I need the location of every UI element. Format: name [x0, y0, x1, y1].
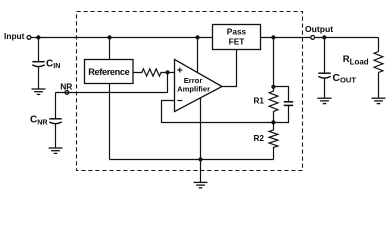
wire CNR drop — [55, 93, 57, 119]
wire COUT drop — [324, 38, 326, 74]
wire RLoad ground stem — [378, 73, 380, 99]
wire RLoad drop — [378, 38, 380, 52]
ground under RLoad — [372, 98, 386, 103]
op-amp error amplifier — [175, 59, 223, 111]
resistor internal R (reference filter) — [133, 69, 175, 76]
plus input marker — [177, 68, 182, 73]
svg-text:R1: R1 — [254, 97, 265, 106]
wire ground stem — [200, 160, 202, 183]
wire CIN drop — [38, 38, 40, 62]
wire reference supply — [109, 38, 111, 60]
wire reference ground drop — [109, 84, 111, 160]
ground center — [194, 182, 208, 187]
IC boundary dashed box — [77, 12, 303, 171]
svg-text:Pass: Pass — [227, 27, 247, 37]
block Pass FET — [213, 25, 261, 50]
wire CIN to ground — [38, 67, 40, 89]
wire COUT ground stem — [324, 78, 326, 98]
junction rail/amp supply — [195, 35, 199, 39]
capacitor feedforward plates — [284, 102, 293, 106]
wire CNR to ground — [55, 124, 57, 148]
wire output rail — [261, 37, 379, 39]
svg-text:Output: Output — [305, 24, 333, 34]
junction rail/COUT — [322, 35, 326, 39]
wire error amp ground — [200, 98, 202, 160]
wire error amp supply — [197, 38, 199, 73]
junction rail/divider — [271, 35, 275, 39]
junction R1 bottom / feedback node — [271, 120, 275, 124]
output terminal — [311, 36, 315, 40]
svg-text:FET: FET — [229, 36, 245, 46]
capacitor CNR — [49, 119, 61, 124]
ground under CIN — [32, 89, 46, 94]
svg-text:Input: Input — [4, 31, 25, 41]
capacitor CIN — [32, 62, 44, 67]
wire divider drop — [273, 38, 275, 92]
svg-text:CIN: CIN — [46, 58, 60, 70]
resistor R2 — [269, 123, 278, 160]
junction rail/reference — [107, 35, 111, 39]
resistor RLoad — [374, 52, 383, 73]
wire input rail — [31, 37, 213, 39]
minus input marker — [177, 100, 182, 102]
capacitor feedforward across R1 wires — [274, 87, 289, 123]
input terminal — [27, 36, 31, 40]
svg-text:R2: R2 — [254, 134, 265, 143]
ground under CNR — [49, 148, 63, 153]
junction ground rail — [198, 157, 202, 161]
junction input/CIN — [36, 35, 40, 39]
wire NR net — [56, 73, 168, 93]
block Reference — [85, 60, 134, 84]
svg-text:CNR: CNR — [30, 114, 48, 126]
svg-text:RLoad: RLoad — [343, 54, 369, 67]
ground under COUT — [318, 98, 332, 103]
svg-text:COUT: COUT — [333, 73, 357, 84]
svg-text:NR: NR — [60, 81, 72, 91]
wire op-amp output to gate — [222, 50, 237, 87]
svg-text:Reference: Reference — [88, 67, 130, 77]
NR terminal — [65, 91, 69, 95]
junction node NR / error amp + input — [165, 70, 169, 74]
resistor R1 — [269, 91, 278, 123]
wire minus feedback — [162, 101, 274, 123]
svg-text:Amplifier: Amplifier — [177, 84, 210, 93]
wire bottom ground rail — [110, 159, 274, 161]
capacitor COUT — [318, 73, 330, 78]
junction R1 top — [271, 85, 275, 89]
